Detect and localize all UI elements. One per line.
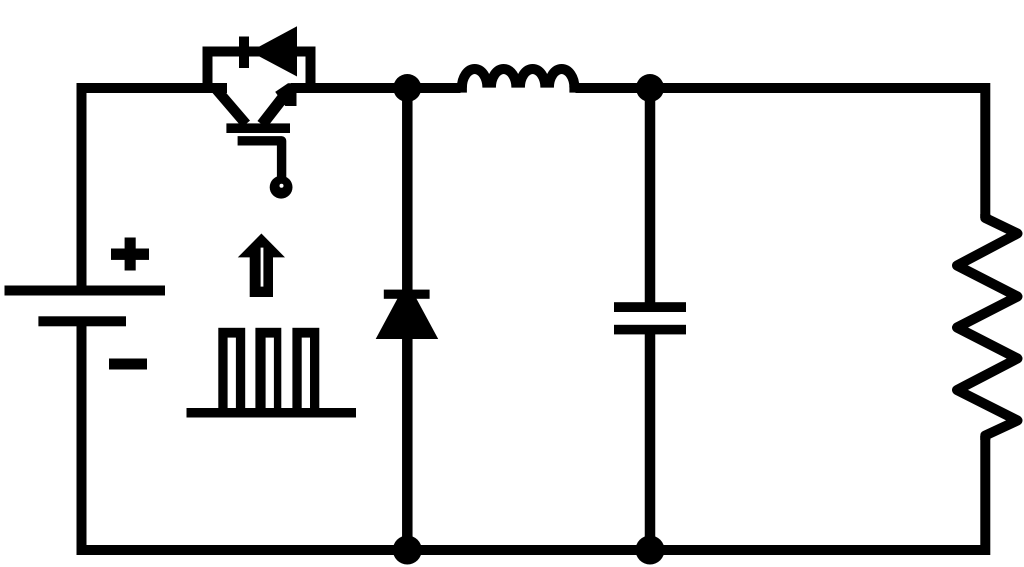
wire: top wire from transistor emitter to node A (diode top) and on to inductor left end: [291, 83, 461, 93]
transistor Q1 emitter slanted lead: [262, 98, 283, 125]
inductor L1 outer feet: [457, 86, 467, 93]
wire: left vertical from top-left corner down to battery positive plate, plus top wire to transistor collector: [82, 88, 228, 290]
node B junction dot (top of capacitor branch): [636, 74, 664, 102]
wire: freewheeling diode branch vertical: [402, 88, 413, 550]
diode D2 triangle (pointing up): [376, 281, 439, 339]
PWM pulse train: pulse 1: [218, 328, 245, 409]
node A junction dot (top of diode branch): [393, 74, 421, 102]
battery V1 positive plate (long): [5, 286, 166, 296]
diode D1 cathode bar: [239, 37, 249, 69]
inductor L1 (4 humps): [462, 69, 575, 88]
battery plus sign: [111, 249, 149, 260]
node junction dot (bottom of capacitor branch): [636, 536, 665, 565]
transistor Q1 base/gate bar: [226, 123, 290, 133]
anti-parallel diode D1 loop wires over transistor: [208, 52, 311, 89]
wire: resistor bottom down, bottom wire to left, and up to battery negative plate: [82, 322, 986, 550]
transistor Q1 gate terminal circle: [270, 176, 293, 199]
PWM drive arrow (block arrow up): [238, 234, 285, 258]
diode D2 cathode bar: [384, 290, 430, 299]
transistor Q1 gate bar (second bar) and lead down: [238, 141, 282, 177]
battery minus sign: [109, 359, 147, 370]
wire: capacitor branch vertical top: [645, 88, 656, 303]
wire: capacitor branch vertical bottom: [645, 334, 656, 550]
pulse 3: [292, 328, 319, 409]
pulse train baseline: [187, 408, 357, 418]
transistor Q1 emitter arrowhead: [275, 83, 296, 106]
wire: top wire from inductor right end to node B, then right side down to resistor top: [576, 88, 986, 218]
transistor Q1 collector slanted lead: [216, 89, 246, 124]
pulse 2: [255, 328, 281, 409]
battery V1 negative plate (short): [38, 316, 126, 326]
capacitor C1 top plate: [614, 302, 686, 312]
resistor R (load) vertical zigzag: [957, 214, 1018, 440]
diode D1 triangle (pointing left): [250, 26, 297, 76]
capacitor C1 bottom plate: [614, 325, 686, 335]
node junction dot (bottom of diode branch): [393, 536, 422, 565]
